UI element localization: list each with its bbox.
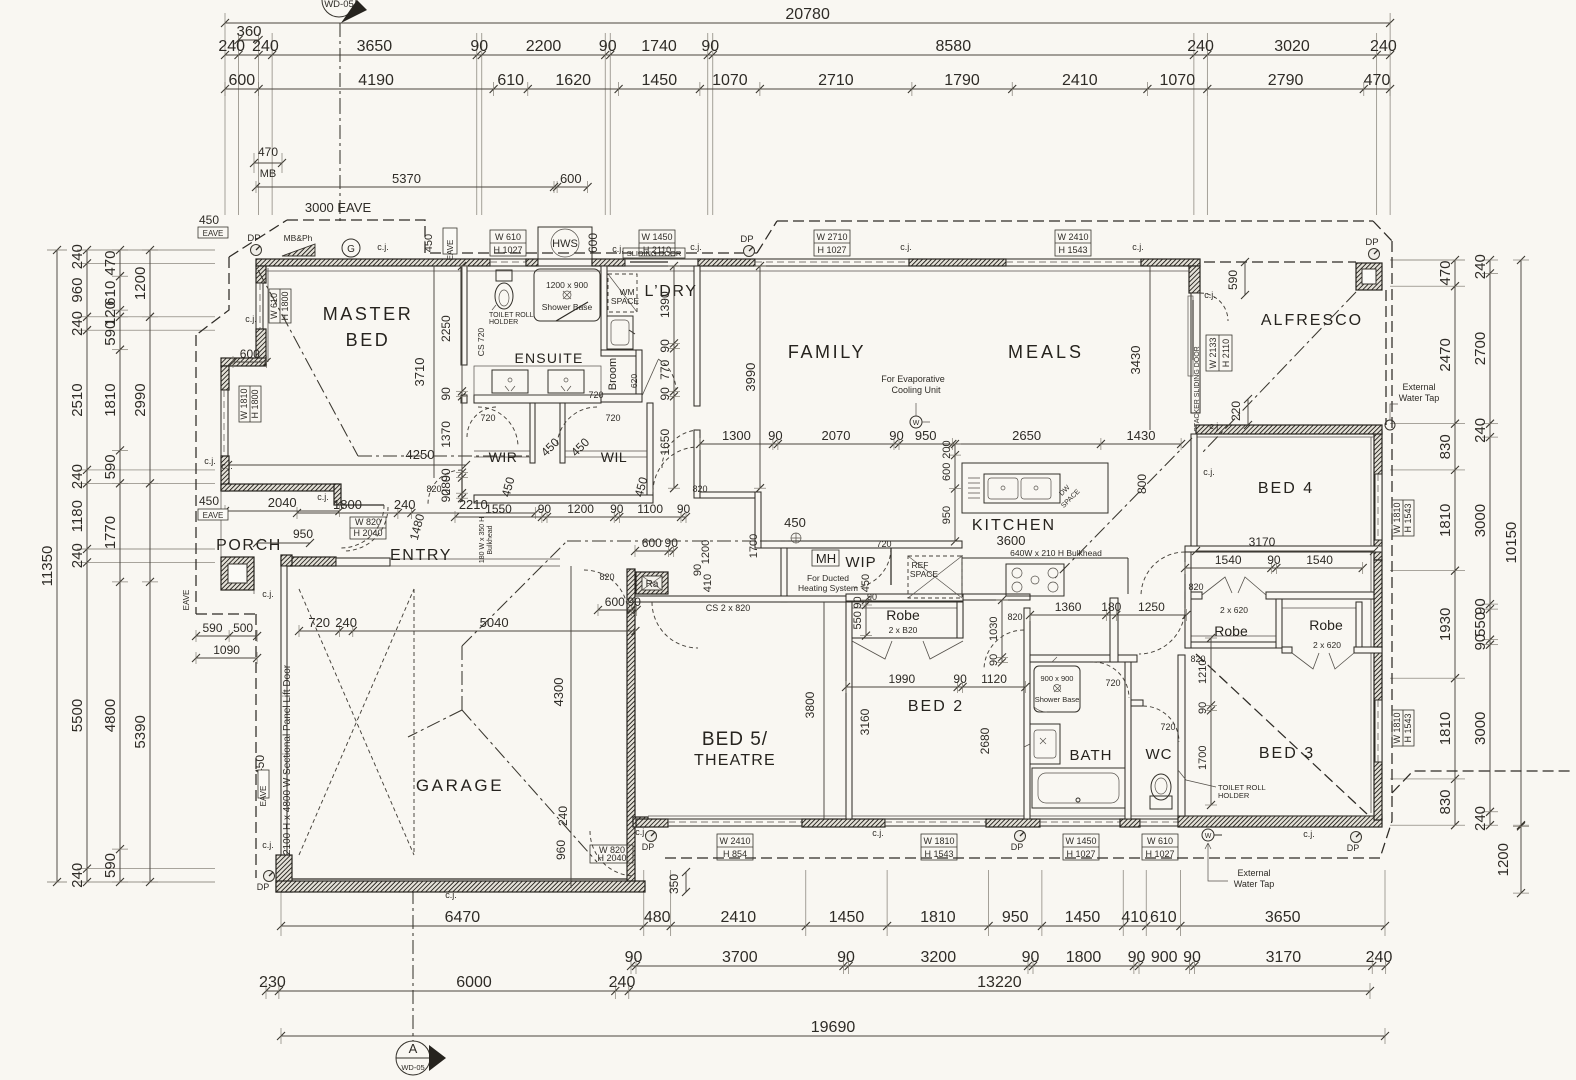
svg-text:960: 960 — [554, 840, 568, 860]
eave line family-meals-alfresco top — [777, 220, 1373, 222]
wall garage east — [627, 569, 635, 881]
svg-text:MASTER: MASTER — [323, 304, 414, 324]
bed5 sw corner block — [633, 817, 648, 827]
svg-text:240: 240 — [1187, 38, 1214, 55]
garage south inner line — [292, 878, 633, 880]
svg-text:Shower Base: Shower Base — [1035, 695, 1080, 704]
wall bed3 east lower — [1374, 647, 1382, 820]
svg-text:External: External — [1237, 868, 1270, 878]
svg-text:1200 x 900: 1200 x 900 — [546, 280, 588, 290]
svg-text:W 1810: W 1810 — [1392, 502, 1402, 533]
right chain col1 — [1390, 256, 1465, 829]
wall robe4 south b — [1354, 647, 1382, 653]
svg-text:11350: 11350 — [39, 546, 56, 587]
svg-text:90: 90 — [852, 596, 864, 608]
section marker A WD-05 bottom — [396, 890, 446, 1075]
svg-text:720: 720 — [588, 390, 603, 400]
svg-text:620: 620 — [629, 374, 639, 388]
svg-text:2700: 2700 — [1472, 332, 1489, 365]
svg-text:1540: 1540 — [1215, 553, 1242, 567]
svg-text:BATH: BATH — [1070, 747, 1113, 764]
eave left side — [195, 335, 197, 614]
wall master bay step — [221, 358, 266, 366]
svg-text:3170: 3170 — [1249, 535, 1276, 549]
wlabel W2710 H1027 — [814, 230, 850, 256]
svg-text:770: 770 — [658, 359, 672, 379]
roof line garage ne arm — [462, 541, 567, 646]
svg-text:W 1810: W 1810 — [923, 836, 954, 846]
svg-text:960: 960 — [69, 278, 86, 303]
svg-text:Robe: Robe — [1214, 623, 1248, 639]
ensuite shower 1200x900 — [534, 269, 600, 321]
svg-text:DP: DP — [740, 234, 753, 245]
DP garage sw — [264, 871, 275, 882]
wall robes south — [1185, 642, 1276, 648]
svg-text:720: 720 — [1105, 678, 1120, 688]
svg-text:c.j.: c.j. — [262, 589, 274, 599]
svg-text:W: W — [1205, 833, 1212, 840]
svg-text:450: 450 — [538, 435, 562, 459]
window W610 master west — [256, 283, 263, 329]
roof line master diag — [258, 270, 358, 456]
door arc garage rear — [590, 831, 635, 876]
svg-text:13220: 13220 — [977, 974, 1022, 991]
svg-text:3000 EAVE: 3000 EAVE — [305, 200, 372, 215]
door arc bath — [1093, 662, 1129, 698]
wall wip-robe south band — [846, 594, 963, 601]
svg-text:2100 H x 4800 W Sectional Pane: 2100 H x 4800 W Sectional Panel Lift Doo… — [282, 664, 293, 855]
dim family row — [696, 428, 1185, 450]
kitchen bench south — [962, 555, 1128, 594]
svg-text:180: 180 — [1101, 600, 1121, 614]
svg-text:MH: MH — [816, 551, 836, 566]
svg-text:720: 720 — [480, 413, 495, 423]
svg-text:H 854: H 854 — [723, 849, 747, 859]
wall south bed5 pier1 — [636, 819, 668, 827]
svg-text:H 1543: H 1543 — [924, 849, 953, 859]
svg-text:1300: 1300 — [722, 428, 751, 443]
garage cross brace 2 — [299, 589, 414, 855]
eave left of master bay — [196, 257, 229, 335]
window W1810 master bay — [221, 390, 228, 456]
svg-text:1200: 1200 — [567, 502, 594, 516]
roof line alfresco diag — [1202, 292, 1356, 453]
wall corridor robe west — [1185, 552, 1191, 648]
eave box tl — [198, 227, 228, 238]
svg-text:MB&Ph: MB&Ph — [284, 233, 313, 243]
entry bulkhead line — [390, 559, 560, 566]
dim bed2 row — [842, 672, 1029, 693]
kitchen island — [962, 463, 1108, 513]
svg-text:950: 950 — [1002, 909, 1029, 926]
section marker WD-05 top — [322, 0, 367, 222]
Ra hatched box — [636, 572, 668, 594]
svg-text:820: 820 — [1190, 654, 1205, 664]
svg-text:External: External — [1402, 382, 1435, 392]
MH box — [812, 550, 839, 566]
roof line meals-kitchen diag — [1055, 438, 1192, 578]
svg-text:230: 230 — [259, 974, 286, 991]
svg-text:720: 720 — [876, 539, 891, 549]
svg-text:1030: 1030 — [988, 616, 1000, 640]
svg-text:Robe: Robe — [1309, 617, 1343, 633]
svg-text:5390: 5390 — [132, 715, 149, 748]
door arc ldry hall — [653, 447, 698, 492]
wall master west lower — [256, 329, 266, 365]
roof ridge master-hall — [358, 455, 532, 457]
svg-text:c.j.: c.j. — [204, 456, 216, 466]
bottom chain row2 — [625, 949, 1393, 974]
svg-text:240: 240 — [1472, 418, 1489, 443]
wall top ldry pier — [592, 259, 625, 266]
wc toilet roll leader — [1178, 770, 1216, 787]
window W1810 bed2 — [885, 819, 986, 826]
svg-text:W 2710: W 2710 — [816, 232, 847, 242]
svg-text:3990: 3990 — [743, 363, 758, 392]
wall bed2 east — [1024, 608, 1030, 819]
eave right side — [1391, 241, 1393, 793]
top overall dim 20780 — [221, 6, 1394, 33]
wall top meals corner — [1141, 259, 1200, 266]
svg-text:90: 90 — [1267, 553, 1281, 567]
svg-text:c.j.: c.j. — [872, 828, 884, 838]
wall ensuite west lower — [461, 395, 467, 403]
svg-text:600: 600 — [642, 536, 662, 550]
svg-text:1090: 1090 — [213, 643, 240, 657]
HWS unit on wall — [538, 227, 592, 259]
svg-text:EAVE: EAVE — [259, 786, 268, 807]
svg-text:90: 90 — [625, 949, 643, 966]
wall south bed5-bed2 pier — [802, 819, 885, 827]
dim line 3710 — [433, 266, 435, 478]
svg-text:H 2110: H 2110 — [1221, 339, 1231, 367]
svg-text:DP: DP — [1011, 842, 1024, 852]
svg-text:1810: 1810 — [1437, 504, 1454, 537]
svg-text:DP: DP — [257, 882, 270, 892]
wall hall south (wir wil) — [474, 495, 653, 503]
roof line garage vertical — [461, 646, 463, 710]
svg-text:90: 90 — [470, 38, 488, 55]
wall meals corner vertical — [1189, 266, 1200, 293]
svg-text:EAVE: EAVE — [182, 590, 191, 611]
svg-text:Robe: Robe — [886, 607, 920, 623]
svg-text:c.j.: c.j. — [245, 314, 257, 324]
svg-text:90: 90 — [658, 387, 672, 401]
water tap bottom symbol — [1202, 829, 1222, 841]
svg-text:BED: BED — [346, 330, 391, 350]
front door leaf+swing — [341, 505, 384, 548]
svg-text:H 1800: H 1800 — [280, 291, 290, 320]
svg-text:H 1027: H 1027 — [1145, 849, 1174, 859]
wall bed4 west — [1191, 434, 1197, 546]
svg-text:W 2410: W 2410 — [1057, 232, 1088, 242]
wall wc north door area — [1131, 700, 1143, 706]
wall master bay upper — [221, 366, 229, 390]
svg-text:1200: 1200 — [700, 540, 712, 564]
svg-text:350: 350 — [667, 874, 681, 894]
svg-text:W 1450: W 1450 — [1065, 836, 1096, 846]
roof line garage left arm — [408, 710, 462, 737]
svg-text:240: 240 — [69, 543, 86, 568]
ldry sliding door — [625, 259, 698, 266]
svg-text:W 610: W 610 — [1147, 836, 1173, 846]
robe bed3 chevron doors — [1202, 577, 1266, 595]
wall wip-hall west — [781, 548, 787, 602]
dim porch 2040 — [221, 495, 343, 517]
svg-text:c.j.: c.j. — [377, 242, 389, 252]
DP bed3 — [1351, 832, 1362, 843]
window label W1810 H1800 — [239, 386, 261, 422]
svg-text:G: G — [347, 244, 355, 255]
svg-text:2470: 2470 — [1437, 338, 1454, 371]
svg-text:4800: 4800 — [102, 699, 119, 732]
svg-text:2710: 2710 — [818, 72, 854, 89]
eave bottom run — [660, 857, 1380, 859]
svg-text:BED 3: BED 3 — [1259, 745, 1315, 762]
wall south bed2-bath pier — [986, 819, 1040, 827]
svg-text:A: A — [409, 1041, 418, 1056]
svg-text:950: 950 — [915, 428, 937, 443]
svg-text:3650: 3650 — [357, 38, 393, 55]
wlabel W2410 H854 — [717, 834, 753, 860]
svg-text:240: 240 — [1472, 254, 1489, 279]
svg-text:1620: 1620 — [555, 72, 591, 89]
svg-text:90: 90 — [701, 38, 719, 55]
wall robe4 east — [1356, 602, 1362, 647]
dim hall 600-90 — [594, 595, 641, 616]
dim 470 MB — [250, 145, 286, 180]
wlabel W2410 H1543 — [1055, 230, 1091, 256]
ensuite basin 2 — [548, 370, 584, 393]
DP bath — [1015, 831, 1026, 842]
alfresco open edges dashed — [1204, 262, 1386, 425]
svg-text:WD-05: WD-05 — [324, 0, 354, 10]
dim line meals 3430 — [1149, 266, 1151, 430]
dim wir row 1550 — [451, 502, 690, 523]
svg-text:c.j.: c.j. — [221, 461, 233, 471]
eave label small top — [443, 228, 457, 260]
svg-text:HWS: HWS — [552, 238, 578, 250]
svg-text:2790: 2790 — [1268, 72, 1304, 89]
svg-text:450: 450 — [423, 234, 435, 252]
wir shelf lines — [474, 451, 530, 457]
svg-text:200: 200 — [941, 440, 953, 458]
svg-text:2510: 2510 — [69, 383, 86, 416]
svg-text:610: 610 — [497, 72, 524, 89]
svg-text:470: 470 — [102, 251, 119, 276]
svg-text:1740: 1740 — [641, 38, 677, 55]
ensuite toilet — [495, 270, 513, 309]
svg-text:590: 590 — [102, 321, 119, 346]
svg-text:600: 600 — [228, 72, 255, 89]
svg-text:220: 220 — [1229, 401, 1243, 421]
robe bed4 chevron doors — [1292, 653, 1354, 669]
top chain row3 — [221, 72, 1394, 96]
ldry trough — [607, 316, 635, 349]
svg-text:3650: 3650 — [1265, 909, 1301, 926]
svg-text:W 1810: W 1810 — [1392, 712, 1402, 743]
bottom chain row1 — [277, 870, 1389, 936]
eave step up family — [757, 221, 777, 253]
kitchen cooktop — [1006, 564, 1064, 596]
robe bed4 inner shelf — [1282, 607, 1362, 609]
window label W1810 H1543 bed3 — [1392, 710, 1414, 746]
svg-text:240: 240 — [69, 311, 86, 336]
svg-text:1650: 1650 — [658, 429, 672, 456]
dim bed2robe 1030 — [988, 596, 1008, 666]
garage door west (sectional) — [281, 566, 287, 855]
svg-text:90: 90 — [1183, 949, 1201, 966]
svg-text:4250: 4250 — [406, 447, 435, 462]
svg-text:600: 600 — [240, 347, 260, 361]
svg-text:90: 90 — [988, 654, 1000, 666]
left overall 11350 — [39, 246, 67, 886]
svg-text:600: 600 — [941, 463, 953, 481]
wlabel W1450 H1027 s — [1063, 834, 1099, 860]
wall broom block — [601, 350, 641, 356]
wall ensuite west — [461, 266, 467, 365]
svg-text:240: 240 — [218, 38, 245, 55]
svg-text:HOLDER: HOLDER — [489, 319, 518, 326]
wall east mid section — [1374, 560, 1382, 647]
dim kitchen hall row — [1026, 600, 1190, 621]
svg-text:240: 240 — [1472, 806, 1489, 831]
porch pillar — [221, 557, 254, 590]
svg-text:1770: 1770 — [102, 516, 119, 549]
broom door — [642, 360, 658, 396]
stacker sliding door meals — [1191, 293, 1200, 413]
svg-text:ENTRY: ENTRY — [390, 547, 452, 564]
svg-text:640W x 210 H Bulkhead: 640W x 210 H Bulkhead — [1010, 548, 1102, 558]
dim bed3 chain — [1197, 634, 1217, 809]
wall south bed3 — [1178, 816, 1382, 827]
svg-text:2040: 2040 — [268, 495, 297, 510]
svg-text:c.j.: c.j. — [1209, 421, 1221, 431]
wall robes band north b — [1266, 592, 1382, 599]
svg-text:W 2133: W 2133 — [1208, 337, 1218, 368]
door arc ensuite — [467, 407, 497, 437]
svg-text:CS 720: CS 720 — [476, 328, 486, 357]
svg-text:1100: 1100 — [637, 502, 663, 516]
svg-text:Water Tap: Water Tap — [1399, 393, 1440, 403]
svg-text:240: 240 — [556, 806, 570, 826]
svg-text:DP: DP — [642, 842, 655, 852]
svg-text:Cooling Unit: Cooling Unit — [891, 385, 941, 395]
right eave ext 1200 — [1495, 822, 1529, 897]
svg-text:H 1543: H 1543 — [1058, 245, 1087, 255]
svg-text:EAVE: EAVE — [203, 229, 224, 238]
wall bed4 south — [1185, 546, 1382, 552]
svg-text:SPACE: SPACE — [611, 296, 640, 306]
dim 5370 top — [252, 171, 561, 193]
water tap leader right — [1390, 404, 1398, 412]
svg-text:1700: 1700 — [1197, 745, 1209, 769]
svg-text:H 2040: H 2040 — [597, 853, 626, 863]
svg-text:240: 240 — [609, 974, 636, 991]
MB&Ph symbol — [282, 233, 315, 256]
bath vanity — [1024, 724, 1060, 764]
wlabel W1810 H1543 s — [921, 834, 957, 860]
eave jog water tap corner — [1392, 771, 1570, 793]
door arc wil — [557, 407, 597, 447]
svg-text:WIP: WIP — [845, 554, 876, 571]
svg-text:1120: 1120 — [981, 672, 1007, 686]
dim master 4250 — [224, 447, 470, 469]
porch edge lines — [221, 491, 254, 594]
svg-text:19690: 19690 — [811, 1019, 856, 1036]
wall ldry-family — [694, 266, 700, 406]
left chain col4 — [132, 246, 158, 886]
wil shelf lines — [565, 451, 647, 457]
right chain col2 — [1472, 254, 1498, 831]
svg-text:WD-05: WD-05 — [401, 1063, 424, 1072]
svg-text:1800: 1800 — [1066, 949, 1102, 966]
window W610 wc — [1140, 819, 1178, 826]
entry south bulkhead thin — [336, 558, 390, 566]
window label W1810 H1543 bed4 — [1392, 500, 1414, 536]
dim line alfresco 590 — [1244, 262, 1246, 295]
dim bed4 row — [1181, 553, 1367, 574]
svg-text:THEATRE: THEATRE — [694, 752, 776, 769]
svg-text:HOLDER: HOLDER — [1218, 791, 1250, 800]
svg-text:240: 240 — [69, 464, 86, 489]
svg-text:90: 90 — [889, 428, 903, 443]
wall family west low — [694, 430, 700, 498]
eave box garage — [258, 770, 269, 798]
svg-text:ENSUITE: ENSUITE — [514, 350, 583, 366]
svg-text:410: 410 — [1121, 909, 1148, 926]
wall top family pier — [698, 259, 755, 266]
svg-text:H 1543: H 1543 — [1403, 503, 1413, 532]
dim kitchen 200-600 — [941, 440, 961, 545]
garage west top pier — [281, 555, 292, 566]
svg-text:820: 820 — [1188, 582, 1203, 592]
wall robes band north a — [1185, 592, 1202, 599]
svg-text:590: 590 — [102, 853, 119, 878]
svg-text:950: 950 — [293, 527, 313, 541]
svg-text:1360: 1360 — [1055, 600, 1082, 614]
inner face line alfresco wall — [1196, 436, 1374, 438]
svg-text:1930: 1930 — [1437, 608, 1454, 641]
svg-text:c.j.: c.j. — [1204, 290, 1216, 300]
ensuite vanity bench — [474, 366, 601, 395]
svg-text:410: 410 — [702, 574, 714, 592]
svg-text:1700: 1700 — [748, 534, 760, 558]
window W1810 bed3 east — [1375, 700, 1382, 762]
eave right bottom chamfer — [1380, 796, 1392, 858]
dim robe2 90-550 — [852, 596, 872, 640]
svg-text:KITCHEN: KITCHEN — [972, 517, 1056, 534]
svg-text:20780: 20780 — [785, 6, 830, 23]
dim chain ensuite west — [439, 262, 468, 502]
svg-text:90: 90 — [599, 38, 617, 55]
svg-text:1180: 1180 — [69, 500, 86, 532]
svg-text:90: 90 — [1128, 949, 1146, 966]
svg-text:950: 950 — [941, 506, 953, 524]
svg-text:H 1543: H 1543 — [1403, 713, 1413, 742]
svg-text:820: 820 — [1007, 612, 1022, 622]
window label W610 H1800 — [269, 289, 291, 323]
eave box left — [198, 509, 228, 520]
svg-text:90: 90 — [867, 592, 877, 602]
svg-text:c.j.: c.j. — [317, 492, 329, 502]
wall top master bed — [256, 259, 490, 266]
door arc family hall — [662, 430, 700, 468]
svg-text:c.j.: c.j. — [900, 242, 912, 252]
svg-text:WIL: WIL — [601, 449, 627, 465]
svg-text:3200: 3200 — [921, 949, 957, 966]
svg-text:5500: 5500 — [69, 699, 86, 732]
